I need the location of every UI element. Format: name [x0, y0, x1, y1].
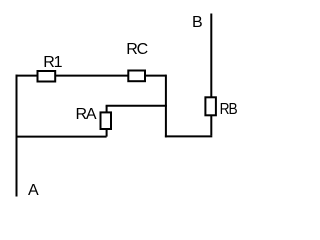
wire bottom-left horizontal: [17, 136, 107, 138]
resistor RB: [205, 97, 216, 115]
wire RA top lead: [106, 106, 108, 113]
resistor R1: [38, 71, 56, 82]
wire bottom-right horizontal: [166, 135, 211, 137]
svg-text:B: B: [192, 14, 202, 31]
wire A terminal left vertical: [16, 76, 18, 196]
wire RB bottom lead: [210, 116, 212, 135]
svg-text:RA: RA: [76, 106, 97, 123]
svg-text:A: A: [28, 182, 39, 199]
wire RA bottom lead: [106, 130, 108, 137]
wire middle vertical (RC/RA junction down): [165, 76, 167, 137]
resistor RC: [128, 71, 145, 82]
wire RC right horizontal: [146, 75, 166, 77]
resistor RA: [101, 112, 112, 129]
svg-text:RC: RC: [126, 41, 147, 58]
svg-text:RB: RB: [220, 101, 237, 118]
svg-text:R1: R1: [43, 54, 62, 71]
wire R1 to RC horizontal: [56, 75, 128, 77]
wire B terminal vertical: [210, 15, 212, 98]
wire RA top horizontal: [107, 105, 166, 107]
wire top-left corner to R1: [17, 75, 38, 77]
